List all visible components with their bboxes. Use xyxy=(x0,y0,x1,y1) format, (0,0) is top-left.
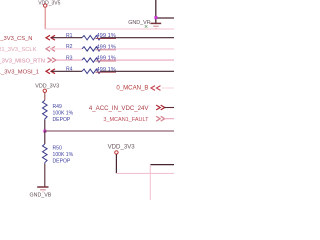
resistor R3 xyxy=(66,55,116,62)
svg-text:VDD_3V3: VDD_3V3 xyxy=(35,84,59,90)
svg-text:R1_3V3_MISO_RTN: R1_3V3_MISO_RTN xyxy=(0,58,45,64)
svg-text:R3: R3 xyxy=(66,55,73,61)
wire junction down to R50 xyxy=(44,131,46,144)
svg-text:VDD_3V5: VDD_3V5 xyxy=(38,0,60,6)
svg-text:100K 1%: 100K 1% xyxy=(53,152,74,158)
port VR1_3V3_MISO_RTN xyxy=(0,58,56,65)
wire row3 left xyxy=(56,59,82,61)
resistor R4 xyxy=(66,67,116,74)
wire row2 left xyxy=(51,48,82,50)
wire row4 right xyxy=(101,70,175,72)
wire row2 right xyxy=(101,48,175,50)
power symbol VDD_3V5 xyxy=(38,0,60,7)
svg-text:3_MCAN1_FAULT: 3_MCAN1_FAULT xyxy=(103,117,149,123)
junction node at R49/R50 xyxy=(43,130,46,133)
wire 3_MCAN1_FAULT to right edge xyxy=(164,118,174,120)
wire row1 left xyxy=(51,37,82,39)
resistor R49 xyxy=(43,100,74,123)
ground GND_VB xyxy=(30,187,52,199)
svg-text:R2: R2 xyxy=(66,44,73,50)
svg-text:R1_3V3_MOSI_1: R1_3V3_MOSI_1 xyxy=(0,70,39,76)
ground GND_VR xyxy=(128,20,161,29)
wire junction to right edge xyxy=(45,130,174,132)
svg-text:0_MCAN_B: 0_MCAN_B xyxy=(116,84,148,91)
svg-text:R1_3V3_CS_N: R1_3V3_CS_N xyxy=(0,36,33,42)
svg-text:GND_VR: GND_VR xyxy=(128,20,151,26)
wire R50 to ground xyxy=(44,164,46,187)
svg-text:R49: R49 xyxy=(53,104,63,110)
svg-text:4_ACC_IN_VDC_24V: 4_ACC_IN_VDC_24V xyxy=(89,105,150,112)
wire R49 to junction xyxy=(44,120,46,131)
wire 0_MCAN_B to right edge xyxy=(162,87,175,89)
wire row1 right xyxy=(101,37,175,39)
resistor R50 xyxy=(43,144,74,165)
port 4_ACC_IN_VDC_24V xyxy=(89,105,165,112)
svg-text:GND_VB: GND_VB xyxy=(30,193,52,199)
port VR1_3V3_CS_N xyxy=(0,35,55,42)
wire VDD_3V3 vertical (bottom right) xyxy=(115,154,117,173)
wire VDD_3V3 to R49 xyxy=(44,93,46,101)
port VR1_3V3_SCLK xyxy=(0,47,55,54)
wire row3 right xyxy=(101,59,175,61)
wire GND_VR vertical from top xyxy=(155,0,157,23)
junction xyxy=(154,16,157,19)
wire row4 left xyxy=(51,70,82,72)
wire 4_ACC_IN_VDC_24V to right edge xyxy=(164,107,174,109)
power symbol VDD_3V3 (middle) xyxy=(35,84,59,93)
marker X xyxy=(145,25,148,27)
wire pink horizontal to right edge (bottom) xyxy=(116,172,174,174)
wire pink vertical to bottom edge xyxy=(149,165,151,200)
port 3_MCAN1_FAULT xyxy=(103,116,164,123)
svg-text:R50: R50 xyxy=(53,146,63,152)
power symbol VDD_3V3 (bottom right) xyxy=(108,144,136,154)
port VR1_3V3_MOSI_1 xyxy=(0,69,55,76)
svg-text:R1: R1 xyxy=(66,33,73,39)
svg-text:R1_3V3_SCLK: R1_3V3_SCLK xyxy=(0,47,37,53)
wire pink horizontal from VDD_3V5 to right edge xyxy=(45,28,174,30)
resistor R2 xyxy=(66,44,116,51)
resistor R1 xyxy=(66,33,116,40)
wire dark horizontal from right edge xyxy=(150,164,174,166)
port 0_MCAN_B xyxy=(116,84,160,91)
svg-text:R4: R4 xyxy=(66,67,73,73)
svg-text:VDD_3V3: VDD_3V3 xyxy=(108,144,136,151)
wire GND_VR horizontal to right edge xyxy=(156,17,174,19)
wire VDD_3V5 vertical xyxy=(44,7,46,29)
svg-text:DEPOP: DEPOP xyxy=(53,117,71,123)
svg-text:DEPOP: DEPOP xyxy=(53,159,71,165)
svg-text:100K 1%: 100K 1% xyxy=(53,110,74,116)
